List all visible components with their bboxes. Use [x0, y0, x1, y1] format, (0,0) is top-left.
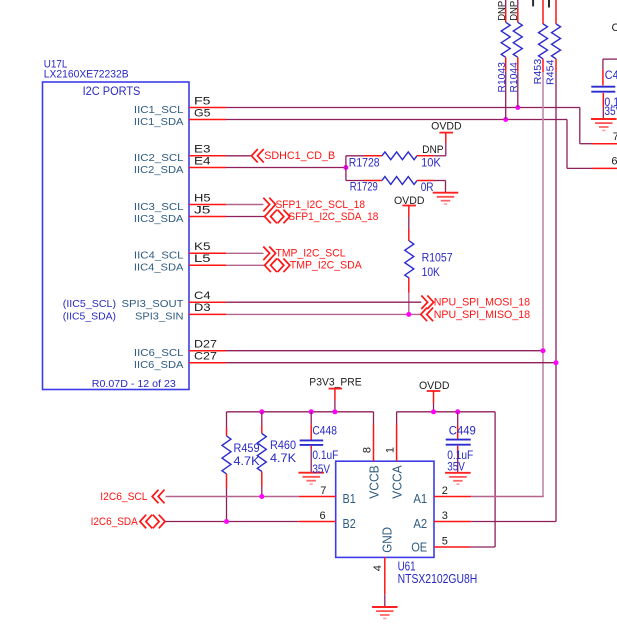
label NTSX2102GU8H — [398, 571, 478, 586]
net label SDHC1_CD_B — [264, 150, 335, 162]
pin name A1 — [413, 491, 427, 506]
resistor R454 — [552, 24, 561, 59]
pin number 8 rotated — [362, 447, 374, 453]
svg-text:TMP_I2C_SCL: TMP_I2C_SCL — [276, 248, 346, 260]
pin number 5 U61 — [442, 535, 448, 547]
pin stub OE pin 5 — [434, 546, 470, 548]
svg-text:C4: C4 — [194, 290, 211, 302]
power symbol P3V3_PRE — [309, 376, 361, 388]
pin name SPI3_SIN — [135, 310, 184, 322]
svg-text:4.7K: 4.7K — [234, 454, 260, 468]
svg-text:C450: C450 — [605, 68, 617, 82]
svg-text:(IIC5_SDA): (IIC5_SDA) — [63, 310, 116, 322]
port arrow I2C6_SDA — [140, 515, 165, 529]
svg-text:H5: H5 — [194, 192, 211, 204]
svg-text:SDHC1_CD_B: SDHC1_CD_B — [264, 150, 335, 162]
wire A1 to R453 net — [471, 496, 544, 498]
label 35V C450 — [604, 104, 617, 118]
svg-text:P3V3_PRE: P3V3_PRE — [309, 376, 361, 388]
svg-text:C446: C446 — [612, 22, 617, 34]
pin stub A1 pin 2 — [434, 496, 471, 498]
wire IIC1_SCL F5 to right bend — [226, 108, 593, 144]
pin stub K5 — [189, 252, 226, 254]
wire below R453 faded long net — [542, 59, 544, 497]
ground below C449 — [445, 473, 471, 484]
resistor R460 — [257, 434, 266, 472]
svg-text:I2C6_SDA: I2C6_SDA — [91, 516, 139, 528]
label 35V C448 — [312, 462, 330, 476]
resistor R1044 — [513, 22, 522, 57]
pin number H5 — [194, 192, 211, 204]
svg-text:VCCB: VCCB — [367, 465, 382, 498]
pin name B1 — [343, 491, 356, 506]
pin number E4 — [194, 155, 211, 167]
svg-text:IIC3_SCL: IIC3_SCL — [134, 201, 184, 213]
pin number F5 — [194, 95, 211, 107]
net label SFP1_I2C_SCL_18 — [276, 199, 366, 211]
svg-text:IIC4_SCL: IIC4_SCL — [134, 250, 184, 262]
svg-text:R1729: R1729 — [350, 182, 378, 194]
wire IIC6_SDA C27 — [226, 362, 556, 364]
pin number C27 — [194, 351, 217, 363]
port arrow SFP1_I2C_SCL_18 — [263, 198, 275, 212]
IC U17L LX2160XE72232B body — [43, 82, 190, 390]
pin name IIC1_SDA — [134, 116, 184, 128]
label R454 rotated — [545, 59, 557, 85]
label R1043 rotated — [496, 62, 508, 92]
pin name VCCA rotated — [390, 465, 405, 499]
label 10K R453 rotated clipped — [532, 0, 534, 6]
junction R1057 on D3 — [406, 312, 411, 317]
junction rail C448 — [309, 409, 314, 414]
label R1728 — [349, 157, 380, 169]
wire below R454 long net — [555, 59, 557, 522]
net label NPU_SPI_MISO_18 — [434, 309, 530, 321]
svg-text:IIC1_SCL: IIC1_SCL — [134, 104, 184, 116]
pin name A2 — [413, 516, 427, 531]
pin name OE — [411, 540, 427, 555]
junction R459 on SDA — [224, 519, 229, 524]
wire OVDD to R1057 — [408, 206, 410, 242]
pin name IIC6_SCL — [134, 347, 184, 359]
port arrow TMP_I2C_SCL — [263, 247, 275, 261]
label 0.1uF C449 — [447, 448, 473, 462]
wire IIC4_SCL K5 — [226, 252, 263, 254]
svg-text:LX2160XE72232B: LX2160XE72232B — [44, 69, 129, 81]
svg-text:10K: 10K — [421, 158, 441, 170]
pin stub A2 pin 3 — [434, 521, 471, 523]
wire below R1044 — [517, 57, 519, 107]
wire IIC4_SDA L5 — [226, 264, 265, 266]
ground below R1729 — [433, 193, 459, 204]
power symbol OVDD R1057 — [394, 195, 425, 207]
label R1057 — [422, 253, 453, 265]
wire IIC3_SDA J5 — [226, 216, 265, 218]
wire below R1043 — [505, 57, 507, 119]
label 0R R1729 — [421, 182, 434, 194]
junction rail OVDD stem — [431, 409, 436, 414]
label R1044 rotated — [508, 62, 520, 92]
resistor R453 — [539, 24, 548, 59]
wire OVDD stem — [433, 391, 435, 412]
port arrow I2C6_SCL — [152, 490, 164, 504]
wire I2C6_SDA to B2 — [165, 521, 299, 523]
svg-text:R460: R460 — [270, 438, 296, 452]
pin number 1 rotated — [385, 447, 397, 453]
svg-text:35V: 35V — [604, 104, 617, 118]
label DNP R1043 rotated — [496, 1, 508, 21]
resistor R1728 — [382, 152, 417, 160]
label U61 — [398, 558, 416, 573]
pin stub B1 pin 7 — [299, 496, 336, 498]
port arrow TMP_I2C_SDA — [265, 259, 290, 273]
pin name SPI3_SOUT — [122, 298, 185, 310]
pin number C4 — [194, 290, 211, 302]
svg-text:35V: 35V — [312, 462, 330, 476]
resistor R1729 — [382, 177, 417, 185]
label R453 rotated — [532, 59, 544, 85]
label I2C PORTS — [83, 84, 141, 98]
svg-text:OE: OE — [411, 540, 427, 555]
pin number G5 — [194, 107, 211, 119]
wire to capacitor C450 — [603, 59, 617, 85]
svg-text:R0.07D - 12 of 23: R0.07D - 12 of 23 — [92, 378, 176, 390]
svg-text:NTSX2102GU8H: NTSX2102GU8H — [398, 571, 478, 586]
svg-text:IIC3_SDA: IIC3_SDA — [134, 213, 184, 225]
svg-text:I2C PORTS: I2C PORTS — [83, 84, 141, 98]
wire stub to R1728 R1729 — [345, 156, 347, 181]
svg-text:IIC1_SDA: IIC1_SDA — [134, 116, 184, 128]
svg-text:2: 2 — [442, 485, 448, 497]
label R0.07D - 12 of 23 — [92, 378, 176, 390]
svg-text:NPU_SPI_MOSI_18: NPU_SPI_MOSI_18 — [434, 297, 530, 309]
pin number K5 — [194, 241, 211, 253]
wire C449 top lead — [457, 412, 459, 439]
net label NPU_SPI_MOSI_18 — [434, 297, 530, 309]
wire above R454 — [555, 0, 557, 24]
wire above R1044 — [517, 0, 519, 22]
wire A2 to R454 net — [471, 521, 556, 523]
junction rail P3V3 stem — [332, 409, 337, 414]
svg-text:A1: A1 — [413, 491, 427, 506]
svg-text:5: 5 — [442, 535, 448, 547]
junction rail R460 — [259, 409, 264, 414]
label 10K R1057 — [422, 267, 441, 279]
junction on F5 wire at R1044 — [515, 105, 520, 110]
pin stub L5 — [189, 264, 226, 266]
label 4.7K R459 — [234, 454, 260, 468]
pin number D27 — [194, 339, 217, 351]
pin name IIC4_SDA — [134, 262, 184, 274]
wire R460 top lead — [261, 412, 263, 434]
svg-text:3: 3 — [442, 510, 448, 522]
pin stub H5 — [189, 204, 226, 206]
power symbol OVDD R1728 — [431, 120, 462, 132]
svg-text:G5: G5 — [194, 107, 211, 119]
wire P3V3_PRE stem — [334, 389, 336, 412]
label C449 — [449, 424, 476, 438]
pin stub J5 — [189, 216, 226, 218]
svg-text:C449: C449 — [449, 424, 476, 438]
wire OVDD rail — [397, 412, 496, 547]
svg-text:GND: GND — [380, 527, 395, 553]
svg-text:0.1uF: 0.1uF — [312, 448, 338, 462]
pin name IIC2_SDA — [134, 164, 184, 176]
capacitor C448 — [300, 440, 324, 445]
junction on G5 wire at R1043 — [503, 117, 508, 122]
svg-text:NPU_SPI_MISO_18: NPU_SPI_MISO_18 — [434, 309, 530, 321]
svg-text:(IIC5_SCL): (IIC5_SCL) — [63, 298, 116, 310]
label 35V C449 — [447, 460, 465, 474]
svg-text:IIC4_SDA: IIC4_SDA — [134, 262, 184, 274]
wire C448 bottom lead — [310, 446, 312, 472]
pin name GND rotated — [380, 527, 395, 553]
svg-text:7: 7 — [613, 131, 617, 143]
pin stub E4 — [189, 167, 226, 169]
wire SPI3_SOUT C4 — [226, 301, 421, 303]
svg-text:J5: J5 — [194, 204, 211, 216]
pin name B2 — [343, 516, 356, 531]
label LX2160XE72232B value — [44, 69, 129, 81]
pin stub G5 — [189, 119, 226, 121]
pin number 7 — [613, 131, 617, 143]
svg-text:SPI3_SIN: SPI3_SIN — [135, 310, 184, 322]
junction D27 to R453 net — [541, 348, 546, 353]
pin name IIC6_SDA — [134, 359, 184, 371]
svg-text:R1728: R1728 — [349, 157, 380, 169]
wire R459 bottom lead — [226, 474, 228, 522]
power symbol OVDD U61 — [419, 380, 450, 392]
label DNP R1728 — [422, 144, 444, 156]
pin number L5 — [194, 253, 211, 265]
net label I2C6_SCL — [100, 491, 147, 503]
net label TMP_I2C_SCL — [276, 248, 346, 260]
wire below C450 — [602, 93, 604, 118]
wire IIC2_SCL E3 — [226, 155, 251, 157]
svg-text:R454: R454 — [545, 59, 557, 85]
label DNP R1044 rotated — [508, 1, 520, 21]
label R1729 — [350, 182, 378, 194]
port arrow NPU_SPI_MOSI_18 — [421, 295, 433, 309]
port arrow SDHC1_CD_B — [252, 149, 264, 163]
wire R1728 right lead — [417, 132, 446, 155]
label C448 — [312, 424, 337, 438]
svg-text:I2C6_SCL: I2C6_SCL — [100, 491, 147, 503]
svg-text:C448: C448 — [312, 424, 337, 438]
svg-text:A2: A2 — [413, 516, 427, 531]
pin number D3 — [194, 302, 211, 314]
pin number 7 U61 — [320, 485, 326, 497]
pin name IIC4_SCL — [134, 250, 184, 262]
label 10K R1728 — [421, 158, 441, 170]
label (IIC5_SCL) — [63, 298, 116, 310]
wire above R453 — [542, 0, 544, 24]
svg-text:DNP: DNP — [422, 144, 444, 156]
svg-text:C27: C27 — [194, 351, 217, 363]
pin stub VCCB pin 8 — [373, 425, 375, 462]
svg-text:B2: B2 — [343, 516, 356, 531]
wire IIC3_SCL H5 — [226, 204, 263, 206]
port arrow NPU_SPI_MISO_18 — [421, 308, 433, 322]
wire below R1057 — [408, 278, 410, 314]
junction E4 resistors — [343, 165, 348, 170]
capacitor C450 — [591, 87, 615, 92]
svg-text:SFP1_I2C_SDA_18: SFP1_I2C_SDA_18 — [288, 211, 378, 223]
resistor R459 — [222, 436, 231, 474]
junction C27 to R454 net — [554, 360, 559, 365]
net label SFP1_I2C_SDA_18 — [288, 211, 378, 223]
svg-text:F5: F5 — [194, 95, 211, 107]
svg-text:7: 7 — [320, 485, 326, 497]
svg-text:R1057: R1057 — [422, 253, 453, 265]
svg-text:IIC6_SDA: IIC6_SDA — [134, 359, 184, 371]
svg-text:SFP1_I2C_SCL_18: SFP1_I2C_SCL_18 — [276, 199, 366, 211]
IC U61 NTSX2102GU8H body — [336, 461, 434, 557]
svg-text:R1044: R1044 — [508, 62, 520, 92]
wire SPI3_SIN D3 — [226, 313, 421, 315]
svg-text:R1043: R1043 — [496, 62, 508, 92]
pin name IIC3_SCL — [134, 201, 184, 213]
svg-text:L5: L5 — [194, 253, 211, 265]
svg-text:IIC2_SDA: IIC2_SDA — [134, 164, 184, 176]
label 10K R454 rotated clipped — [548, 0, 550, 8]
pin stub D3 — [189, 313, 226, 315]
wire C449 bottom lead — [457, 446, 459, 472]
label (IIC5_SDA) — [63, 310, 116, 322]
svg-text:DNP: DNP — [508, 1, 520, 21]
svg-text:OVDD: OVDD — [431, 120, 462, 132]
label C446 clipped — [612, 22, 617, 34]
label C450 — [605, 68, 617, 82]
label R460 — [270, 438, 296, 452]
svg-text:6: 6 — [320, 510, 326, 522]
svg-text:B1: B1 — [343, 491, 356, 506]
pin stub F5 — [189, 107, 226, 109]
junction R460 on SCL — [259, 494, 264, 499]
wire P3V3 rail — [227, 412, 374, 428]
pin number 6 U61 — [320, 510, 326, 522]
pin name VCCB rotated — [367, 465, 382, 498]
pin stub B2 pin 6 — [299, 521, 336, 523]
pin stub 6 of off-page part — [593, 167, 617, 169]
wire R460 bottom lead — [261, 472, 263, 497]
port arrow SFP1_I2C_SDA_18 — [265, 210, 290, 224]
label 0.1uF C450 — [604, 95, 617, 109]
ground below U61 pin 4 — [372, 607, 398, 618]
svg-text:IIC6_SCL: IIC6_SCL — [134, 347, 184, 359]
pin name IIC3_SDA — [134, 213, 184, 225]
capacitor C449 — [446, 440, 471, 445]
pin number J5 — [194, 204, 211, 216]
svg-text:VCCA: VCCA — [390, 465, 405, 499]
pin stub GND pin 4 — [384, 557, 386, 606]
pin name IIC1_SCL — [134, 104, 184, 116]
pin number 2 U61 — [442, 485, 448, 497]
pin stub C27 — [189, 362, 226, 364]
pin number 3 U61 — [442, 510, 448, 522]
ground below C450 — [591, 119, 617, 130]
pin stub VCCA pin 1 — [396, 425, 398, 462]
svg-text:6: 6 — [611, 155, 617, 167]
pin stub 7 of off-page part — [593, 143, 617, 145]
svg-text:D27: D27 — [194, 339, 217, 351]
svg-text:E3: E3 — [194, 144, 211, 156]
svg-text:R453: R453 — [532, 59, 544, 85]
pin number 4 rotated — [372, 565, 384, 571]
pin number 6 — [611, 155, 617, 167]
svg-text:DNP: DNP — [496, 1, 508, 21]
ground below C448 — [298, 473, 324, 484]
svg-text:0R: 0R — [421, 182, 434, 194]
wire R1729 right lead — [417, 181, 446, 193]
svg-text:10K: 10K — [422, 267, 441, 279]
svg-text:SPI3_SOUT: SPI3_SOUT — [122, 298, 185, 310]
net label TMP_I2C_SDA — [290, 260, 363, 272]
pin stub D27 — [189, 350, 226, 352]
pin stub E3 — [189, 155, 226, 157]
wire I2C6_SCL to B1 — [166, 496, 299, 498]
wire above R1043 — [505, 0, 507, 22]
label R459 — [234, 441, 260, 455]
label 4.7K R460 — [270, 451, 296, 465]
svg-text:4: 4 — [372, 565, 384, 571]
svg-text:8: 8 — [362, 447, 374, 453]
svg-text:4.7K: 4.7K — [270, 451, 296, 465]
resistor R1057 — [405, 241, 414, 278]
svg-text:IIC2_SCL: IIC2_SCL — [134, 152, 184, 164]
wire OE to OVDD rail — [470, 546, 495, 548]
wire IIC2_SDA E4 — [226, 167, 346, 169]
wire R459 top lead — [226, 428, 228, 436]
pin name IIC2_SCL — [134, 152, 184, 164]
svg-text:D3: D3 — [194, 302, 211, 314]
resistor R1043 — [501, 22, 510, 57]
label U17L reference — [44, 59, 68, 71]
label 0.1uF C448 — [312, 448, 338, 462]
wire C448 top lead — [310, 412, 312, 440]
pin stub C4 — [189, 301, 226, 303]
wire R1729 left lead — [346, 180, 382, 182]
wire IIC1_SDA G5 to right bend — [226, 120, 593, 169]
svg-text:1: 1 — [385, 447, 397, 453]
net label I2C6_SDA — [91, 516, 139, 528]
junction rail C449 — [455, 409, 460, 414]
svg-text:K5: K5 — [194, 241, 211, 253]
pin number E3 — [194, 144, 211, 156]
svg-text:TMP_I2C_SDA: TMP_I2C_SDA — [290, 260, 363, 272]
svg-text:E4: E4 — [194, 155, 211, 167]
svg-text:35V: 35V — [447, 460, 465, 474]
wire R1728 left lead — [346, 155, 382, 157]
wire IIC6_SCL D27 — [226, 350, 543, 352]
